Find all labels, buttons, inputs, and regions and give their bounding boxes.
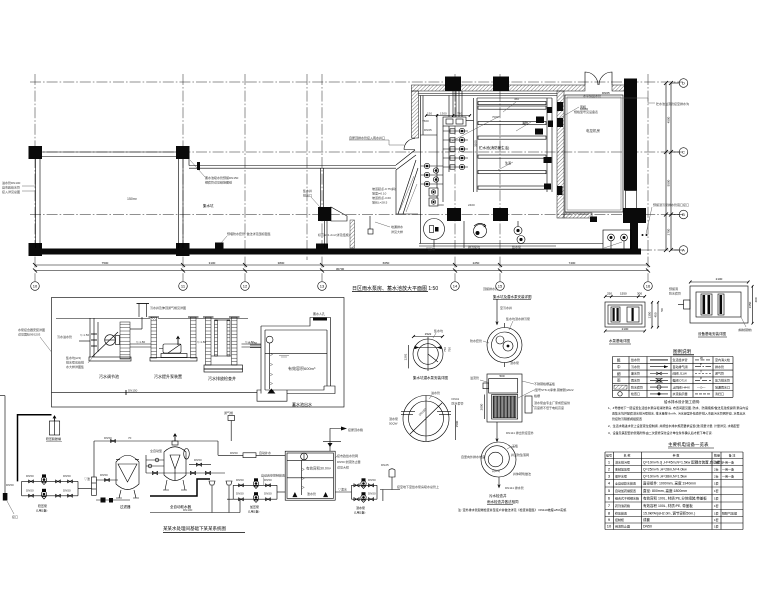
svg-text:DN111 排水管: DN111 排水管 — [505, 485, 524, 490]
svg-text:集水坑及潜水泵安装详图: 集水坑及潜水泵安装详图 — [493, 294, 532, 299]
grid line V x=307 — [306, 74, 308, 260]
dim line manifold — [426, 115, 470, 117]
svg-text:风机: 风机 — [580, 104, 586, 109]
svg-text:防水套管: 防水套管 — [452, 401, 464, 406]
expansion vessel — [49, 421, 59, 435]
grid line V x=322 — [321, 74, 323, 281]
sump pit bottom right — [603, 230, 631, 249]
svg-text:注: 室外排水管起端检查井至接户井做法详见《检查井图集》 D: 注: 室外排水管起端检查井至接户井做法详见《检查井图集》 DN110坡度i≥5%… — [458, 507, 567, 512]
svg-text:名 称: 名 称 — [624, 452, 631, 457]
svg-text:12: 12 — [243, 284, 248, 289]
tank partition bar 6 — [478, 171, 546, 174]
grid line V x=35 — [34, 74, 36, 281]
pump valve circle — [424, 181, 429, 186]
svg-text:有效容积600m³: 有效容积600m³ — [288, 365, 316, 371]
svg-text:接市政给水管网: 接市政给水管网 — [337, 453, 358, 458]
pipe 1-2 — [130, 343, 151, 345]
svg-text:1套: 1套 — [714, 503, 719, 508]
svg-text:蓄水人孔: 蓄水人孔 — [313, 311, 325, 316]
riser to city main (thin) — [0, 395, 5, 397]
door in left wall — [404, 139, 415, 150]
svg-text:250: 250 — [607, 292, 612, 296]
svg-text:蓄水池吸水管预留DN150: 蓄水池吸水管预留DN150 — [205, 175, 239, 180]
pump room top wall hatched right part — [612, 85, 630, 91]
svg-text:2000: 2000 — [480, 403, 484, 410]
tank black fitting — [536, 117, 544, 124]
svg-text:—⊙—: —⊙— — [697, 385, 706, 389]
svg-text:集水井: 集水井 — [303, 188, 312, 193]
vent stack — [138, 304, 140, 318]
svg-text:稳压泵: 稳压泵 — [38, 503, 47, 508]
svg-text:3500: 3500 — [474, 140, 478, 147]
svg-text:DN150: DN150 — [128, 389, 138, 393]
svg-text:排水泵房给排: 排水泵房给排 — [66, 360, 84, 365]
svg-text:坡度i=0.10: 坡度i=0.10 — [372, 191, 387, 196]
pump group 2 — [233, 484, 277, 486]
svg-text:排出口: 排出口 — [303, 193, 312, 198]
svg-text:某某水处理间基础下某某系统图: 某某水处理间基础下某某系统图 — [163, 525, 226, 532]
svg-text:过滤器: 过滤器 — [120, 504, 131, 509]
grid line H-A y=82 — [30, 81, 683, 83]
svg-text:750: 750 — [443, 347, 447, 352]
svg-text:DN50: DN50 — [264, 478, 272, 482]
svg-text:坡道终点-3.60: 坡道终点-3.60 — [372, 195, 391, 200]
svg-text:自动补水: 自动补水 — [259, 450, 271, 455]
svg-text:至污水井: 至污水井 — [500, 305, 512, 310]
legend row 6 — [618, 392, 622, 396]
grid bubble A right — [671, 249, 679, 251]
svg-text:生活: 生活 — [505, 160, 511, 165]
svg-text:水大样详图集: 水大样详图集 — [66, 364, 84, 369]
svg-text:1套: 1套 — [714, 517, 719, 522]
grid line V x=648 — [647, 74, 649, 281]
base detail 2 — [690, 286, 748, 323]
lift pump — [163, 344, 181, 353]
svg-text:成套: 成套 — [643, 517, 651, 522]
pump room inner left wall line — [420, 96, 422, 244]
tank black fitting — [544, 157, 552, 163]
svg-text:Q=10m³/h Jj ,H=45m,N=1.5kw 配耦合: Q=10m³/h Jj ,H=45m,N=1.5kw 配耦合装置,自动搅匀 — [643, 459, 724, 464]
svg-text:1650: 1650 — [748, 301, 752, 308]
svg-text:接入详见总图: 接入详见总图 — [2, 189, 20, 194]
svg-text:止回阀 H44X: 止回阀 H44X — [673, 384, 690, 389]
svg-text:详见大样: 详见大样 — [391, 229, 403, 234]
svg-text:闸阀 J11W: 闸阀 J11W — [673, 371, 687, 376]
svg-text:DN50: DN50 — [100, 473, 108, 477]
base detail 1 — [605, 302, 645, 327]
svg-text:废水管: 废水管 — [631, 371, 640, 376]
tank partition bar 3 — [478, 122, 546, 125]
svg-text:自市政给水管: 自市政给水管 — [2, 185, 20, 190]
svg-text:▽-1.50: ▽-1.50 — [80, 333, 89, 337]
svg-text:DN50: DN50 — [26, 474, 34, 478]
svg-text:加压泵: 加压泵 — [250, 504, 259, 509]
pump valve circle — [424, 163, 429, 168]
svg-text:组合式不锈钢水箱: 组合式不锈钢水箱 — [615, 496, 639, 501]
svg-text:(型号ST8.4(承重,钢梯蹬)2022: (型号ST8.4(承重,钢梯蹬)2022 — [534, 387, 574, 392]
hatched wall stub — [350, 220, 355, 248]
svg-text:污水提升泵装置: 污水提升泵装置 — [154, 373, 182, 379]
elbow from vent — [141, 317, 143, 329]
svg-text:2400: 2400 — [468, 203, 475, 207]
detail circle C — [487, 328, 522, 363]
svg-text:自动加药罐装置: 自动加药罐装置 — [615, 488, 636, 493]
grille hatched block — [493, 396, 516, 418]
svg-text:有效容积30.0m³: 有效容积30.0m³ — [306, 466, 332, 471]
svg-text:1套: 1套 — [714, 496, 719, 501]
svg-text:1300: 1300 — [440, 112, 447, 116]
svg-text:6650: 6650 — [383, 261, 390, 265]
grid line V x=183 — [182, 74, 184, 281]
svg-text:A: A — [682, 248, 685, 253]
circle C labels — [496, 299, 498, 325]
svg-text:给水管: 给水管 — [631, 357, 640, 362]
svg-text:一用一备: 一用一备 — [722, 466, 734, 471]
svg-text:潜水泵: 潜水泵 — [356, 505, 365, 510]
valve branch 4 — [443, 157, 468, 159]
svg-text:蝶阀 D71X: 蝶阀 D71X — [673, 378, 687, 383]
svg-text:污水检查井: 污水检查井 — [489, 493, 507, 498]
small vessel left — [389, 469, 395, 477]
svg-text:DN50: DN50 — [368, 492, 376, 496]
level gauge — [266, 336, 273, 343]
svg-text:5500: 5500 — [667, 179, 671, 186]
column x=35 y=152 — [29, 146, 43, 159]
svg-text:污水进水管: 污水进水管 — [57, 334, 72, 339]
svg-text:DN50: DN50 — [230, 451, 238, 455]
column x=183 y=152 — [176, 146, 190, 159]
svg-text:Q=10m³/h ,H=38m,N=1.5kw: Q=10m³/h ,H=38m,N=1.5kw — [643, 474, 687, 478]
svg-text:接至地下室给水泵房吸水总管上: 接至地下室给水泵房吸水总管上 — [397, 484, 439, 489]
svg-text:不锈钢格栅盖板: 不锈钢格栅盖板 — [534, 381, 555, 386]
base detail 2 dims — [690, 281, 748, 283]
base detail 1 dims — [605, 296, 645, 298]
svg-text:1套: 1套 — [714, 481, 719, 486]
grid line H-C y=214 — [30, 214, 683, 216]
right wall black column lower — [630, 223, 638, 250]
svg-text:防水套管: 防水套管 — [470, 338, 482, 343]
svg-text:给水泵: 给水泵 — [512, 244, 521, 249]
svg-text:W: W — [700, 356, 703, 360]
svg-text:一用一备: 一用一备 — [722, 459, 734, 464]
svg-text:1套: 1套 — [714, 488, 719, 493]
svg-text:潜水泵由专业厂家成套提供: 潜水泵由专业厂家成套提供 — [534, 400, 570, 405]
legend row 5 — [614, 385, 627, 389]
svg-text:7500: 7500 — [422, 119, 429, 123]
svg-text:(精制钢梯): (精制钢梯) — [738, 327, 752, 332]
small pump circles right — [514, 227, 522, 235]
interior column x=454 — [447, 208, 461, 221]
svg-text:7F: 7F — [128, 436, 132, 440]
inner partition top-left room — [422, 96, 424, 136]
discharge box (black) — [318, 207, 331, 221]
left water tank room walls — [35, 151, 183, 153]
svg-text:10: 10 — [607, 524, 612, 529]
svg-text:DN25: DN25 — [381, 463, 389, 467]
svg-text:蓄水池出水: 蓄水池出水 — [292, 401, 312, 407]
svg-text:DN41: DN41 — [452, 397, 460, 401]
svg-text:井体砌筑做法: 井体砌筑做法 — [513, 471, 531, 476]
structure3 discharge well — [206, 317, 212, 365]
tank partition bar 2 — [478, 106, 546, 109]
pipe group2 to tank — [277, 491, 285, 493]
column top x=453 — [445, 77, 461, 92]
svg-text:1000: 1000 — [437, 203, 444, 207]
svg-text:750: 750 — [448, 347, 452, 352]
svg-text:标高H=1.2m²(详见结施): 标高H=1.2m²(详见结施) — [318, 232, 350, 237]
inlet pipe — [250, 344, 261, 346]
svg-text:F: F — [700, 363, 702, 367]
svg-text:C: C — [682, 150, 685, 155]
svg-text:15: 15 — [498, 284, 503, 289]
pump room left wall hatched — [412, 91, 419, 138]
svg-text:防水套管: 防水套管 — [669, 291, 681, 296]
svg-text:污水管: 污水管 — [631, 364, 640, 369]
svg-text:集水坑: 集水坑 — [203, 203, 214, 208]
right wall black tee — [623, 208, 646, 223]
svg-text:▽泄: ▽泄 — [84, 476, 90, 481]
branch fittings g3 — [354, 498, 359, 501]
suction duct vertical pipes — [452, 91, 454, 118]
svg-text:接屋顶水箱: 接屋顶水箱 — [348, 427, 363, 432]
svg-text:300: 300 — [637, 292, 642, 296]
right wall window gap — [626, 191, 637, 209]
electrical room inner outline — [565, 95, 623, 212]
svg-text:给水排水设计施工说明:: 给水排水设计施工说明: — [664, 399, 700, 404]
manifold vertical pipes — [436, 114, 438, 202]
riser above discharge box — [320, 168, 322, 207]
label box on pipe — [243, 453, 256, 458]
svg-text:气压罐: 气压罐 — [426, 246, 435, 251]
svg-text:B: B — [682, 212, 685, 217]
wall black mark 1 — [557, 102, 563, 111]
svg-text:15.0kPA/(αH2.0m ,调节容积50m.): 15.0kPA/(αH2.0m ,调节容积50m.) — [643, 510, 695, 515]
svg-text:主要机电设备一览表: 主要机电设备一览表 — [668, 441, 709, 448]
electrical room bottom wall hatched — [564, 213, 592, 218]
svg-text:780: 780 — [457, 112, 462, 116]
svg-text:Q=25m³/h ,H=28m,N=4.0kw: Q=25m³/h ,H=28m,N=4.0kw — [643, 467, 687, 471]
top distribution pipe — [94, 440, 218, 442]
pump valve circle — [424, 172, 429, 177]
svg-text:50: 50 — [660, 308, 664, 312]
structure2 lift pump pit — [151, 317, 157, 358]
svg-text:雨水检查井做法相同: 雨水检查井做法相同 — [487, 499, 519, 504]
svg-text:地漏雨水口: 地漏雨水口 — [715, 384, 730, 389]
svg-text:自动排气阀: 自动排气阀 — [673, 364, 688, 369]
svg-text:防水套管: 防水套管 — [631, 384, 643, 389]
pipe to filters — [78, 488, 92, 490]
chain pipe into pump group2 — [227, 499, 240, 512]
pipe below nested — [498, 477, 500, 488]
column small x=219 — [215, 243, 224, 250]
svg-text:DN50: DN50 — [236, 478, 244, 482]
svg-text:自里向外排水坡度: 自里向外排水坡度 — [461, 454, 485, 459]
tank black fitting — [544, 184, 551, 190]
svg-text:压力排水管: 压力排水管 — [715, 378, 730, 383]
grid bubble B right — [671, 214, 679, 216]
svg-text:Y: Y — [700, 370, 702, 374]
dimension line bottom 2 — [35, 270, 648, 272]
svg-text:DN50: DN50 — [368, 478, 376, 482]
svg-text:排污泵坑: 排污泵坑 — [468, 244, 480, 249]
long drain pipe — [52, 392, 258, 394]
circle A dims — [413, 336, 443, 338]
column at wall x=35 — [29, 243, 43, 256]
grid bubble D right — [671, 82, 679, 84]
svg-text:1291: 1291 — [404, 353, 408, 360]
svg-text:置集水坑并配套潜水排污泵排水, 排水量按 8m³/h, 污水: 置集水坑并配套潜水排污泵排水, 排水量按 8m³/h, 污水经室外检查井排入市政… — [612, 411, 746, 416]
grid bubble 13 — [318, 282, 327, 291]
svg-text:2100: 2100 — [622, 327, 629, 331]
svg-text:集水坑潜水泵安装详图: 集水坑潜水泵安装详图 — [413, 375, 448, 380]
pipe manifold to tank — [466, 120, 474, 122]
svg-text:粗: 粗 — [617, 357, 621, 362]
valve branch 2 — [443, 139, 468, 141]
svg-text:图例说明: 图例说明 — [673, 348, 691, 355]
svg-text:全自动软水器: 全自动软水器 — [170, 504, 191, 509]
svg-text:2250: 2250 — [473, 261, 480, 265]
svg-text:生活给水管: 生活给水管 — [673, 357, 688, 362]
pump room inner top wall lines — [419, 93, 558, 95]
svg-text:DN50: DN50 — [264, 492, 272, 496]
structure1 settling tank — [89, 318, 91, 357]
branch fittings g2 — [239, 498, 244, 501]
svg-text:▽泄水: ▽泄水 — [338, 487, 347, 492]
tank black fitting — [547, 107, 552, 113]
svg-text:通气管: 通气管 — [715, 371, 724, 376]
channel stub at column — [188, 157, 190, 166]
pipe out right — [242, 343, 262, 345]
svg-text:(1用1备): (1用1备) — [36, 508, 47, 513]
svg-text:污水排放检查井: 污水排放检查井 — [208, 375, 236, 381]
svg-text:3、设备及其配套的管路附件由二次装修深化设计单位条件确认后才: 3、设备及其配套的管路附件由二次装修深化设计单位条件确认后才能下单订货. — [608, 430, 713, 435]
svg-text:7500: 7500 — [102, 261, 109, 265]
grid bubble 12 — [241, 282, 250, 291]
flow diagram enclosing box — [52, 298, 345, 408]
svg-text:4500: 4500 — [667, 116, 671, 123]
tank side line right — [546, 98, 548, 192]
svg-text:中: 中 — [617, 364, 621, 369]
tank black fitting — [548, 121, 553, 128]
svg-text:药剂溶药箱: 药剂溶药箱 — [615, 503, 630, 508]
svg-text:自屋顶排水管接入雨水井口: 自屋顶排水管接入雨水井口 — [349, 135, 385, 140]
svg-text:16: 16 — [646, 284, 651, 289]
leader line to overflow note — [565, 98, 655, 103]
svg-text:电控机房: 电控机房 — [586, 128, 600, 133]
drain header — [150, 512, 240, 514]
svg-text:接口: 接口 — [12, 514, 18, 519]
svg-text:倒流防止器: 倒流防止器 — [615, 524, 630, 529]
detail circle B — [403, 396, 449, 442]
svg-text:预留潜污泵排水管甩口接口: 预留潜污泵排水管甩口接口 — [653, 202, 689, 207]
svg-text:1550: 1550 — [620, 292, 627, 296]
svg-text:P: P — [700, 376, 702, 380]
svg-text:潜水泵: 潜水泵 — [389, 416, 398, 421]
svg-text:室内消火栓: 室内消火栓 — [715, 357, 730, 362]
svg-text:500: 500 — [499, 374, 504, 378]
svg-text:一用一备: 一用一备 — [722, 473, 734, 478]
svg-text:泄水管: 泄水管 — [307, 491, 316, 496]
svg-text:DN50: DN50 — [194, 458, 202, 462]
svg-text:2、生活水箱进水管上设置液位控制阀, 并按给水排水规范要求设: 2、生活水箱进水管上设置液位控制阀, 并按给水排水规范要求设置(泄)流量计量, … — [608, 423, 740, 428]
svg-text:DN50: DN50 — [6, 483, 14, 487]
svg-text:全自动型: 全自动型 — [150, 448, 162, 453]
grid bubble 14 — [451, 282, 460, 291]
svg-text:污水井及伸顶通气帽见详图: 污水井及伸顶通气帽见详图 — [150, 305, 186, 310]
svg-text:(1用1备): (1用1备) — [248, 509, 259, 514]
svg-text:检查口: 检查口 — [631, 391, 640, 396]
svg-text:450: 450 — [514, 97, 519, 101]
branch fittings g3 — [354, 484, 359, 487]
svg-text:3100: 3100 — [209, 261, 216, 265]
svg-text:稳压装置: 稳压装置 — [615, 510, 627, 515]
column at wall x=183 — [176, 243, 190, 256]
standpipe — [92, 477, 97, 495]
svg-text:管接防污隔断阀组装置: 管接防污隔断阀组装置 — [612, 416, 642, 421]
tank top line — [477, 97, 552, 99]
pipe tank to group3 — [335, 491, 351, 493]
svg-text:变频加压泵: 变频加压泵 — [615, 466, 630, 471]
svg-text:30700: 30700 — [336, 267, 345, 271]
grid line V x=500 — [499, 74, 501, 281]
svg-text:设备基础安装详图: 设备基础安装详图 — [698, 331, 726, 336]
svg-text:50QW: 50QW — [389, 422, 398, 426]
svg-text:进水管DN100: 进水管DN100 — [2, 180, 21, 185]
ramp diagonals — [396, 150, 418, 214]
tank partition bar 7 — [478, 186, 546, 189]
svg-text:13: 13 — [320, 284, 325, 289]
ground line — [56, 318, 150, 320]
svg-text:1、4号楼地下一层设置生活给水泵房和消防泵房, 布置间距见图: 1、4号楼地下一层设置生活给水泵房和消防泵房, 布置间距见图, 防水、防潮措施/… — [608, 405, 748, 410]
svg-text:稳压膨胀罐: 稳压膨胀罐 — [46, 436, 61, 441]
svg-text:排水管: 排水管 — [715, 364, 724, 369]
svg-text:10: 10 — [33, 284, 38, 289]
svg-text:循环水泵: 循环水泵 — [615, 473, 627, 478]
svg-text:详见大样: 详见大样 — [337, 465, 349, 470]
anchor block — [3, 493, 8, 501]
grid line H-B y=152 — [30, 151, 683, 153]
drain funnels — [209, 481, 232, 497]
svg-text:自动启停控制装置: 自动启停控制装置 — [261, 473, 285, 478]
svg-text:进水管: 进水管 — [431, 390, 440, 395]
valve branch 3 — [443, 148, 468, 150]
svg-text:150m²: 150m² — [127, 197, 138, 201]
svg-text:(1用1备): (1用1备) — [354, 510, 365, 515]
svg-text:▽-1.80: ▽-1.80 — [197, 340, 206, 344]
electrical room left wall hatched — [557, 91, 564, 218]
svg-text:400: 400 — [754, 297, 758, 302]
svg-text:日区雨水泵房、蓄水池放大平面图 1:50: 日区雨水泵房、蓄水池放大平面图 1:50 — [352, 285, 438, 292]
svg-text:参 数: 参 数 — [673, 452, 680, 457]
softener side piping — [146, 459, 164, 461]
svg-text:控制柜: 控制柜 — [615, 517, 624, 522]
svg-text:隔膜气压罐: 隔膜气压罐 — [722, 510, 737, 515]
branch fittings — [29, 480, 34, 483]
svg-text:集水坑: 集水坑 — [434, 328, 443, 333]
grid bubble 11 — [179, 282, 188, 291]
svg-text:详见国标99S203: 详见国标99S203 — [18, 332, 41, 337]
svg-text:地漏排水: 地漏排水 — [391, 224, 403, 229]
svg-text:▽-1.80: ▽-1.80 — [248, 341, 257, 345]
big pump tank circle — [424, 219, 445, 240]
filter vessel — [116, 455, 139, 489]
column at wall x=322 — [316, 244, 328, 255]
svg-text:DN50: DN50 — [63, 474, 71, 478]
svg-text:14: 14 — [453, 284, 458, 289]
column top x=501 — [493, 77, 509, 92]
svg-text:φ(1/2): φ(1/2) — [492, 469, 500, 473]
pump room inner bottom double line — [419, 243, 603, 245]
